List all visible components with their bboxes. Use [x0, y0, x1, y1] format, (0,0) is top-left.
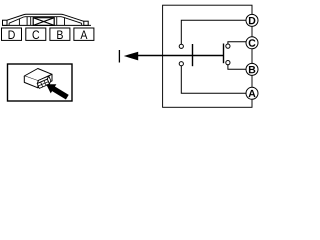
cavity A [74, 28, 94, 40]
cavity B [50, 28, 70, 40]
terminal B [246, 63, 258, 75]
switch 1 upper contact [179, 44, 183, 48]
connector face view: left ear lug [3, 20, 8, 25]
switch 1 lower contact [179, 62, 183, 66]
legend: 3D connector top face [24, 69, 52, 81]
switch 2 lower contact [226, 61, 230, 65]
wire: terminal bar at arrow [118, 50, 120, 63]
wire: to terminal A [181, 66, 246, 93]
schematic outer box [163, 5, 252, 107]
connector face view: housing bottom line [3, 24, 92, 26]
switch 1 movable bar [192, 44, 194, 66]
wire: to terminal B [228, 65, 247, 70]
legend box [8, 64, 73, 101]
connector face view: inner wall verticals [9, 17, 82, 26]
wire arrow (to connector) [124, 52, 138, 61]
cavity D [2, 28, 22, 40]
legend: terminal block detail [36, 76, 52, 88]
terminal A [246, 87, 258, 99]
wire: to terminal C [228, 42, 247, 44]
connector face view: outer roof outline [7, 14, 84, 21]
terminal D [246, 14, 258, 26]
connector face view: inner roof outline [9, 17, 82, 24]
terminal C [246, 37, 258, 49]
legend: 3D connector left face [24, 76, 38, 88]
wire: to terminal D [181, 20, 246, 44]
wire: main feed line [138, 55, 224, 57]
legend: black arrow pointing at connector [46, 84, 68, 99]
connector face view: center keyway crossed box [33, 18, 54, 26]
legend: 3D connector right face [38, 74, 52, 87]
switch 2 upper contact [226, 44, 230, 48]
connector face view: right ear lug [84, 21, 88, 25]
switch 2 movable bar [223, 44, 225, 64]
cavity C [26, 28, 46, 40]
